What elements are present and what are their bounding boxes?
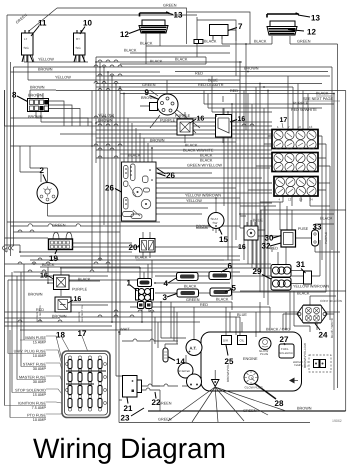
connector 19 bbox=[49, 239, 73, 250]
svg-text:GREEN: GREEN bbox=[297, 40, 311, 44]
wire yellow under switches y62 bbox=[24, 55, 88, 62]
svg-text:BLACK: BLACK bbox=[128, 154, 141, 158]
glow plug circle lower bbox=[244, 371, 263, 390]
svg-text:20: 20 bbox=[129, 243, 138, 252]
svg-text:BROWN/YEL: BROWN/YEL bbox=[226, 364, 230, 382]
label 20 bbox=[129, 243, 141, 252]
label 16 mid-a bbox=[190, 116, 204, 124]
label 13a bbox=[170, 11, 183, 20]
svg-text:BLACK: BLACK bbox=[184, 285, 197, 289]
svg-text:33: 33 bbox=[313, 223, 322, 232]
wire label18 17 leaders bbox=[62, 336, 88, 356]
label 14 bbox=[169, 357, 186, 366]
svg-text:2: 2 bbox=[40, 166, 45, 175]
svg-text:BLACK: BLACK bbox=[316, 92, 329, 96]
tiny wire labels top bbox=[15, 4, 311, 120]
svg-text:BROWN: BROWN bbox=[297, 407, 312, 411]
wire hop bumps bbox=[3, 60, 255, 322]
label 2 bbox=[40, 166, 47, 182]
svg-text:GREEN: GREEN bbox=[142, 83, 156, 87]
label 16 left-a bbox=[40, 273, 54, 280]
label 6 bbox=[221, 262, 233, 273]
relay 16 left-b bbox=[55, 297, 71, 312]
svg-text:GREEN: GREEN bbox=[186, 298, 200, 302]
svg-text:SIG: SIG bbox=[76, 46, 82, 50]
svg-text:12: 12 bbox=[288, 198, 292, 202]
fuse text IGNITION bbox=[5, 402, 47, 411]
wire speaker 12b black/green bbox=[246, 36, 338, 388]
label 3 bbox=[163, 293, 178, 302]
svg-text:13: 13 bbox=[311, 14, 320, 23]
svg-text:BROWN: BROWN bbox=[30, 86, 45, 90]
label 17 fuse bbox=[78, 329, 87, 338]
label 11 bbox=[31, 19, 47, 37]
wire left vertical x7 bbox=[6, 15, 8, 252]
horn 16 right bbox=[244, 222, 258, 240]
svg-text:29: 29 bbox=[253, 267, 262, 276]
label 16 mid-b bbox=[230, 116, 245, 123]
wire speaker 12a drops bbox=[120, 38, 230, 64]
hexagon connector 24 bbox=[297, 305, 327, 323]
svg-text:LT: LT bbox=[24, 37, 27, 41]
speaker 12b bbox=[267, 13, 299, 35]
wire mid verticals x96-120 bbox=[92, 57, 124, 335]
svg-text:YELLOW: YELLOW bbox=[186, 199, 202, 203]
svg-text:13: 13 bbox=[309, 125, 313, 129]
label 16 right bbox=[238, 244, 246, 251]
relay 20 bbox=[140, 239, 156, 253]
label 21 bbox=[124, 398, 133, 414]
connector 29 upper bbox=[271, 265, 291, 278]
svg-text:BROWN: BROWN bbox=[150, 139, 165, 143]
svg-text:SEE NEXT PG: SEE NEXT PG bbox=[81, 305, 84, 322]
svg-text:7: 7 bbox=[238, 22, 243, 31]
relay block C pins4-24 bbox=[274, 177, 318, 197]
connector near box 7 bbox=[194, 40, 203, 44]
svg-text:10: 10 bbox=[83, 19, 92, 28]
relay 16 mid-b bbox=[216, 115, 232, 138]
svg-text:26: 26 bbox=[105, 184, 114, 193]
svg-text:BROWN: BROWN bbox=[98, 119, 113, 123]
svg-text:OIL: OIL bbox=[240, 339, 245, 343]
svg-text:3: 3 bbox=[163, 293, 168, 302]
wire bus band y57-94 bbox=[14, 57, 346, 411]
svg-text:STARTER: STARTER bbox=[179, 370, 191, 373]
svg-text:GLOW PLUG: GLOW PLUG bbox=[245, 386, 264, 390]
fuse text MAIN bbox=[20, 336, 46, 345]
wire ignition drops to engine bbox=[142, 302, 177, 348]
svg-text:28: 28 bbox=[275, 399, 284, 408]
label 27 bbox=[280, 335, 289, 345]
svg-text:RED: RED bbox=[230, 89, 238, 93]
svg-text:Wiring Diagram: Wiring Diagram bbox=[33, 433, 226, 464]
svg-text:YELLOW W/BROWN: YELLOW W/BROWN bbox=[293, 285, 329, 289]
svg-text:BROWN: BROWN bbox=[141, 96, 156, 100]
wire cluster right outputs bbox=[156, 168, 272, 214]
svg-text:RT: RT bbox=[76, 37, 80, 41]
OIL box bbox=[238, 336, 247, 345]
svg-text:CONT BEACON: CONT BEACON bbox=[320, 299, 342, 303]
wire relay16a connections bbox=[40, 267, 140, 305]
D/R box bbox=[222, 336, 232, 345]
tiny label cont beacon bbox=[320, 299, 342, 303]
box 21 bbox=[123, 376, 142, 398]
label 26 right bbox=[157, 169, 175, 181]
wire brown y72 left bbox=[11, 71, 161, 73]
part number bbox=[332, 419, 342, 423]
svg-text:BLUE: BLUE bbox=[208, 79, 218, 83]
wire box20 connections bbox=[136, 232, 240, 260]
svg-text:10 AMP: 10 AMP bbox=[33, 418, 47, 422]
title text bbox=[33, 433, 226, 464]
svg-text:16: 16 bbox=[197, 116, 205, 123]
wire yellow y80 left bbox=[28, 62, 240, 80]
svg-text:BLACK / ORG: BLACK / ORG bbox=[266, 328, 290, 332]
wire right feeder y100-116 bbox=[204, 76, 334, 130]
svg-text:7.5 AMP: 7.5 AMP bbox=[32, 406, 47, 410]
label 12a bbox=[120, 29, 141, 39]
svg-text:BLACK: BLACK bbox=[78, 278, 91, 282]
fuse text STOP bbox=[12, 389, 46, 398]
svg-text:8: 8 bbox=[12, 91, 17, 100]
svg-text:16: 16 bbox=[74, 296, 82, 303]
diode 5 bbox=[210, 288, 232, 296]
svg-text:6: 6 bbox=[228, 262, 233, 271]
svg-text:A.T.: A.T. bbox=[190, 346, 197, 351]
wire brown y90 into connector 8 bbox=[30, 90, 92, 146]
svg-text:ENGINE: ENGINE bbox=[243, 357, 258, 361]
svg-text:5: 5 bbox=[232, 284, 237, 293]
wire box7 connections bbox=[197, 17, 246, 76]
svg-text:YELLOW: YELLOW bbox=[55, 76, 71, 80]
svg-text:PTO FUSE: PTO FUSE bbox=[27, 414, 46, 418]
tiny rotated labels bbox=[36, 232, 334, 382]
wire engine top feeders bbox=[226, 291, 310, 337]
svg-text:FUEL: FUEL bbox=[281, 347, 289, 351]
switch 10 RT SIG bbox=[74, 30, 86, 62]
tiny wire labels low bbox=[28, 217, 333, 422]
wire seat switch drop bbox=[196, 198, 216, 233]
svg-text:4: 4 bbox=[164, 279, 169, 288]
svg-text:21: 21 bbox=[124, 404, 133, 413]
svg-text:BLACK: BLACK bbox=[175, 58, 188, 62]
wire lower-left band y222-272 bbox=[5, 222, 272, 330]
svg-text:BLACK: BLACK bbox=[216, 298, 229, 302]
wire fuse leaders bbox=[46, 336, 98, 414]
svg-text:24: 24 bbox=[310, 198, 314, 202]
svg-text:BLACK: BLACK bbox=[200, 159, 213, 163]
wire ground fan bbox=[168, 387, 286, 422]
svg-text:30 AMP: 30 AMP bbox=[33, 380, 47, 384]
label 29 bbox=[253, 267, 272, 279]
svg-text:15: 15 bbox=[219, 235, 228, 244]
diode 3 bbox=[177, 289, 199, 297]
engine block bbox=[201, 332, 302, 391]
label 5 bbox=[225, 284, 237, 293]
svg-text:FUSE: FUSE bbox=[298, 227, 309, 231]
svg-text:31: 31 bbox=[296, 260, 305, 269]
relay 16 mid-a bbox=[177, 119, 193, 135]
svg-text:19: 19 bbox=[299, 198, 303, 202]
svg-text:BROWN: BROWN bbox=[28, 293, 43, 297]
relay block A pins1-13 bbox=[272, 130, 318, 150]
wire green red band y302-322 bbox=[5, 302, 341, 340]
tiny labels see next page bbox=[303, 92, 340, 102]
svg-text:BROWN: BROWN bbox=[28, 94, 43, 98]
svg-text:10: 10 bbox=[298, 125, 302, 129]
svg-text:BROWN: BROWN bbox=[52, 315, 67, 319]
injector arrow bbox=[289, 378, 298, 384]
svg-text:PLUG: PLUG bbox=[260, 352, 269, 356]
svg-text:GREEN: GREEN bbox=[158, 418, 172, 422]
tiny wire labels mid bbox=[52, 83, 317, 229]
connector circle 9 bbox=[150, 94, 179, 115]
svg-text:BLACK: BLACK bbox=[320, 217, 333, 221]
svg-text:BROWN: BROWN bbox=[196, 225, 211, 229]
fuse text MASTER bbox=[17, 376, 46, 385]
label 18 bbox=[56, 331, 65, 340]
svg-text:SOLENOID: SOLENOID bbox=[280, 352, 294, 355]
svg-text:16: 16 bbox=[238, 116, 246, 123]
switch 11 LT SIG bbox=[22, 30, 34, 62]
svg-text:PURPLE: PURPLE bbox=[324, 232, 328, 244]
svg-text:PURPLE: PURPLE bbox=[160, 119, 176, 123]
wire top-left horizontal y15 bbox=[7, 14, 197, 16]
wire right verticals bundle bbox=[236, 62, 334, 390]
wire black y64 speaker bbox=[175, 57, 206, 64]
pill 14 bbox=[163, 348, 168, 362]
label 10 bbox=[80, 19, 92, 35]
svg-text:IGNITION FUSE: IGNITION FUSE bbox=[18, 402, 47, 406]
svg-text:BROWN: BROWN bbox=[28, 115, 43, 119]
label 28 bbox=[275, 399, 284, 408]
svg-text:30 AMP: 30 AMP bbox=[33, 367, 47, 371]
relay 16 left-a bbox=[54, 275, 70, 290]
label 1 bbox=[127, 279, 138, 292]
wire junction dots bbox=[19, 43, 335, 333]
relay block B bbox=[272, 153, 318, 172]
wire thick bottom y411 bbox=[148, 410, 346, 412]
svg-text:BLUE: BLUE bbox=[253, 219, 263, 223]
svg-text:14: 14 bbox=[176, 357, 185, 366]
svg-text:16: 16 bbox=[238, 244, 246, 251]
svg-text:RED: RED bbox=[195, 72, 203, 76]
svg-text:GREEN: GREEN bbox=[158, 402, 172, 406]
svg-text:BLACK W/WHITE: BLACK W/WHITE bbox=[183, 149, 214, 153]
block A pin numbers bbox=[277, 125, 313, 129]
seat switch 15 bbox=[208, 213, 224, 232]
svg-text:16: 16 bbox=[40, 273, 48, 280]
label 23 bbox=[121, 408, 145, 423]
fuel solenoid 27 box bbox=[279, 344, 294, 358]
svg-text:SEE NEXT PG: SEE NEXT PG bbox=[39, 305, 42, 322]
svg-text:BLACK: BLACK bbox=[204, 40, 217, 44]
label 31 bbox=[296, 260, 306, 273]
wire left lowest verticals bbox=[5, 264, 25, 418]
label 8 bbox=[12, 91, 28, 102]
svg-text:13: 13 bbox=[174, 11, 183, 20]
svg-text:BLACK: BLACK bbox=[150, 60, 163, 64]
svg-text:SW: SW bbox=[213, 221, 218, 225]
glow indicator circle bbox=[259, 338, 271, 357]
svg-text:BLUE / WHITE: BLUE / WHITE bbox=[330, 318, 334, 338]
svg-text:WHIT: WHIT bbox=[120, 328, 130, 332]
svg-text:17: 17 bbox=[78, 329, 87, 338]
wire right column extra verticals bbox=[224, 104, 236, 300]
fuse text START bbox=[21, 363, 46, 372]
svg-text:D/R: D/R bbox=[223, 339, 229, 343]
svg-text:BROWN: BROWN bbox=[38, 68, 53, 72]
label 30 bbox=[265, 234, 282, 243]
wire green diagonal from switch 11 bbox=[29, 8, 57, 31]
svg-text:RED: RED bbox=[270, 247, 278, 251]
svg-text:PURPLE: PURPLE bbox=[293, 102, 309, 106]
svg-text:BLACK: BLACK bbox=[140, 42, 153, 46]
wire mid band y118-158 bbox=[5, 90, 273, 158]
svg-text:GREEN W/YELLOW: GREEN W/YELLOW bbox=[187, 164, 222, 168]
svg-text:GREEN: GREEN bbox=[163, 4, 177, 8]
svg-text:UNIV. PLUG FUSE: UNIV. PLUG FUSE bbox=[14, 350, 47, 354]
wire block3 bottom fan bbox=[240, 196, 346, 276]
svg-text:MAIN FUSE: MAIN FUSE bbox=[25, 336, 46, 340]
block C pin numbers bbox=[279, 198, 314, 202]
svg-text:START FUSE: START FUSE bbox=[23, 363, 47, 367]
svg-text:BROWN/YELLOW: BROWN/YELLOW bbox=[303, 343, 307, 368]
label 7 bbox=[228, 22, 243, 31]
wire starter area bbox=[122, 307, 202, 386]
label 26 left bbox=[105, 184, 122, 193]
fuse text UNIV bbox=[8, 350, 46, 359]
svg-text:27: 27 bbox=[280, 335, 289, 344]
svg-text:RED: RED bbox=[200, 303, 208, 307]
svg-text:SIG: SIG bbox=[24, 46, 30, 50]
wire top bus y8 with right frame drop x345.5 bbox=[57, 8, 250, 44]
svg-text:12: 12 bbox=[120, 30, 129, 39]
label 22 bbox=[152, 392, 161, 407]
starter motor bbox=[178, 363, 193, 378]
label 33 bbox=[313, 223, 322, 232]
box 31 bbox=[304, 271, 312, 284]
svg-text:PURPLE: PURPLE bbox=[72, 288, 88, 292]
label 24 bbox=[315, 324, 328, 340]
svg-text:BLACK: BLACK bbox=[254, 40, 267, 44]
dashed connector right of engine bbox=[309, 355, 331, 372]
label 9 bbox=[145, 88, 160, 100]
connector 29 lower bbox=[271, 278, 291, 291]
svg-text:BLACK: BLACK bbox=[185, 144, 198, 148]
label 4 bbox=[164, 278, 178, 289]
svg-text:STOP SOLENOID: STOP SOLENOID bbox=[15, 389, 46, 393]
starter solenoid bbox=[187, 374, 202, 389]
instrument cluster 26 bbox=[122, 162, 157, 221]
svg-text:19062: 19062 bbox=[332, 419, 342, 423]
A.T. circle bbox=[186, 340, 202, 356]
svg-text:SEE NEXT PAGE: SEE NEXT PAGE bbox=[303, 97, 334, 101]
fuse box bbox=[62, 351, 110, 418]
svg-text:26: 26 bbox=[166, 171, 175, 180]
label 25 bbox=[225, 345, 234, 366]
wire 21 box area bbox=[116, 282, 310, 423]
ground triangle engine bbox=[212, 370, 220, 387]
svg-text:BLACK: BLACK bbox=[200, 154, 213, 158]
wire relays16 mid connections bbox=[185, 96, 223, 143]
wire 28 thick leader bbox=[254, 383, 276, 399]
wire hexagon 24 connections bbox=[283, 296, 336, 330]
ignition switch 1 bbox=[136, 279, 154, 309]
svg-text:BLACK: BLACK bbox=[135, 256, 148, 260]
svg-text:RED-D/100/TR: RED-D/100/TR bbox=[198, 83, 224, 87]
svg-text:YELLOW W/BROWN: YELLOW W/BROWN bbox=[185, 194, 221, 198]
solenoid 30 32 bbox=[281, 230, 296, 247]
diode 4 bbox=[177, 273, 199, 281]
svg-text:11: 11 bbox=[38, 19, 47, 28]
svg-text:GREEN: GREEN bbox=[52, 224, 66, 228]
fuse text PTO bbox=[10, 414, 46, 423]
label 16 left-b bbox=[68, 296, 81, 303]
wire circle9 connections bbox=[140, 80, 200, 133]
wire engine right dashed bbox=[302, 362, 310, 366]
wire comp19 arcs bbox=[53, 232, 72, 239]
svg-text:BLACK: BLACK bbox=[124, 49, 137, 53]
svg-text:23: 23 bbox=[121, 414, 130, 423]
svg-text:10 AMP: 10 AMP bbox=[33, 354, 47, 358]
box 7 bbox=[210, 25, 229, 40]
svg-text:GREEN: GREEN bbox=[243, 409, 257, 413]
label 12b bbox=[288, 28, 316, 37]
svg-text:BLACK: BLACK bbox=[297, 292, 310, 296]
svg-text:MASTER FUSE: MASTER FUSE bbox=[19, 376, 46, 380]
svg-text:RED W/WHITE: RED W/WHITE bbox=[291, 108, 317, 112]
svg-text:TEMP: TEMP bbox=[294, 364, 301, 367]
label 15 bbox=[219, 228, 228, 244]
svg-text:15 AMP: 15 AMP bbox=[33, 393, 47, 397]
svg-text:18: 18 bbox=[56, 331, 65, 340]
svg-text:17: 17 bbox=[280, 117, 288, 124]
label 17 top bbox=[280, 117, 288, 128]
svg-text:BLUE: BLUE bbox=[237, 313, 247, 317]
wire right low area bbox=[240, 216, 346, 291]
label 19 bbox=[49, 250, 58, 264]
label 13b bbox=[298, 14, 320, 23]
lamp circle 2 bbox=[20, 146, 130, 216]
diode 6 bbox=[209, 272, 231, 280]
wire left verticals bundle bbox=[5, 62, 14, 323]
wire cluster top drops bbox=[128, 118, 152, 162]
svg-text:BROWN: BROWN bbox=[244, 67, 259, 71]
wire right blocks stubs bbox=[248, 136, 330, 320]
label 32 bbox=[262, 242, 282, 251]
svg-text:15 AMP: 15 AMP bbox=[33, 341, 47, 345]
svg-text:24: 24 bbox=[319, 331, 328, 340]
speaker 12a bbox=[139, 12, 170, 38]
svg-text:PURPLE: PURPLE bbox=[175, 114, 191, 118]
connector 8 bbox=[28, 99, 49, 112]
fuse grid bbox=[66, 356, 107, 411]
wire ignition connections bbox=[140, 196, 326, 293]
svg-text:12: 12 bbox=[307, 28, 316, 37]
fuse 33 bbox=[312, 230, 319, 246]
svg-text:YELLOW: YELLOW bbox=[38, 58, 54, 62]
svg-text:BLACK: BLACK bbox=[42, 263, 55, 267]
